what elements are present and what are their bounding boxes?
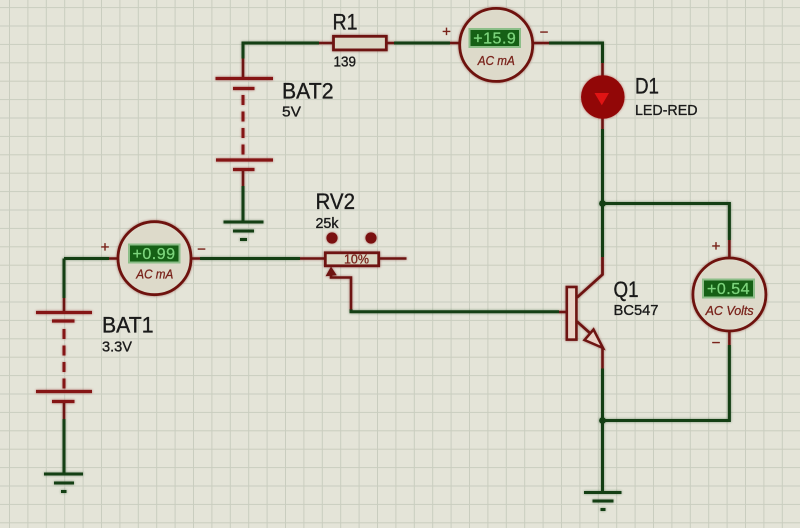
svg-text:BC547: BC547 bbox=[614, 302, 659, 319]
svg-text:+: + bbox=[101, 239, 110, 256]
svg-text:AC mA: AC mA bbox=[477, 54, 515, 68]
svg-text:AC mA: AC mA bbox=[135, 268, 173, 282]
svg-text:+0.54: +0.54 bbox=[707, 281, 750, 298]
svg-text:Q1: Q1 bbox=[614, 277, 639, 302]
svg-text:139: 139 bbox=[334, 54, 357, 71]
svg-text:AC Volts: AC Volts bbox=[705, 304, 754, 318]
svg-text:+: + bbox=[442, 24, 451, 41]
svg-text:LED-RED: LED-RED bbox=[635, 102, 698, 119]
svg-text:+: + bbox=[712, 238, 721, 255]
svg-text:3.3V: 3.3V bbox=[102, 339, 132, 356]
svg-text:+15.9: +15.9 bbox=[473, 31, 516, 48]
svg-text:5V: 5V bbox=[282, 104, 301, 121]
svg-text:D1: D1 bbox=[635, 74, 659, 99]
svg-text:BAT2: BAT2 bbox=[282, 79, 334, 104]
svg-text:+0.99: +0.99 bbox=[133, 246, 176, 263]
svg-text:R1: R1 bbox=[333, 9, 358, 34]
svg-text:BAT1: BAT1 bbox=[102, 313, 154, 338]
svg-text:−: − bbox=[712, 335, 721, 352]
svg-text:25k: 25k bbox=[316, 215, 339, 232]
svg-text:−: − bbox=[197, 241, 206, 258]
svg-text:10%: 10% bbox=[344, 253, 369, 267]
svg-text:RV2: RV2 bbox=[316, 189, 356, 214]
svg-text:−: − bbox=[540, 24, 549, 41]
